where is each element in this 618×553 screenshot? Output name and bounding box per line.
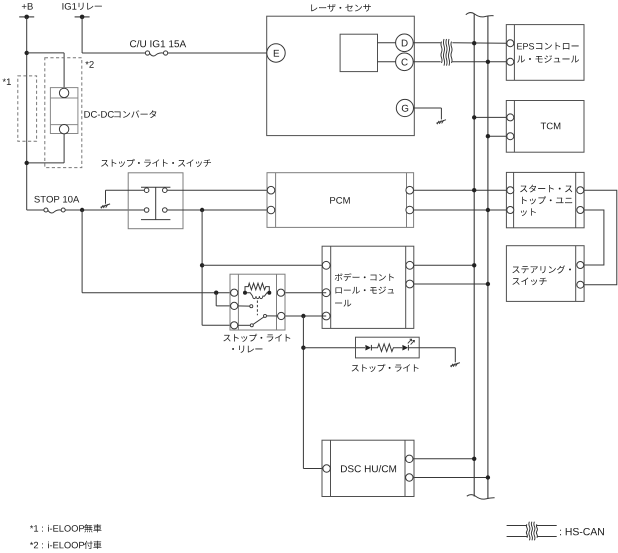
switch contact 3 [144,208,149,213]
junction relay coil branch [214,291,218,295]
HS-CAN bus line 1 [473,14,475,497]
junction stop light feed [301,314,305,318]
relay coil [243,283,271,298]
body control module box [322,246,414,328]
wire to relay contact [202,324,234,326]
junction +B / converter return [25,161,29,165]
wire switch node down [201,210,203,325]
wire SSU to steering outer [584,190,617,285]
wire switch to PCM row1 [167,189,267,191]
note *1 dashed box [3,76,37,141]
terminal BCM-L2 [322,289,330,297]
terminal EPS-2 [507,58,514,65]
terminal BCM-L3 [322,312,330,320]
ground (stop light switch) [101,204,111,209]
junction switch node [200,208,204,212]
wire +B to STOP fuse [27,209,44,211]
bus break top [466,13,494,17]
junction BCM feed [200,263,204,267]
terminal RLY-L2 [231,302,238,309]
wire IG1 to fuse [82,52,145,54]
wire D to bus [413,42,507,44]
terminal BCM-R1 [406,261,414,269]
relay actuator dashed link [256,301,258,316]
terminal SSU-R1 [577,187,584,194]
junction bus C [486,60,490,64]
wire switch to PCM row2 [167,209,267,211]
wire stop light to ground [409,348,456,363]
wire converter feed [27,53,64,89]
wire PCM to start-stop row1 [413,189,506,191]
PCM box [267,173,414,228]
power feed +B [19,3,34,19]
wire to BCM terminal 1 [202,264,326,266]
wire terminal G to ground [414,108,442,119]
wire SSU to steering inner [584,210,604,265]
terminal DSC-R1 [406,455,413,462]
terminal PCM-R1 [406,186,414,194]
wire BCM to bus row2 [410,283,488,285]
relay contact NC [236,305,253,308]
junction bus DSC-2 [486,475,490,479]
junction bus DSC-1 [472,457,476,461]
laser sensor inner module [340,34,377,71]
bus break bottom [467,495,495,500]
switch contact 2 [163,188,168,193]
wire relay to BCM coil row [281,292,326,294]
terminal RLY-R2 [278,312,285,319]
terminal STW-R2 [577,281,584,288]
wire DSC to bus row1 [413,458,474,460]
wire STOP fuse to switch [65,209,144,211]
wire C to bus [413,61,507,63]
stop light diode 1 [365,345,371,351]
terminal BCM-L1 [322,261,330,269]
stop light relay box [223,274,290,353]
start-stop unit box [506,172,584,227]
wire STOP node down to relay [82,210,234,293]
HS-CAN legend twisted pair [507,522,604,541]
terminal PCM-L2 [267,206,275,214]
wire IG1 down [81,17,83,53]
terminal RLY-R1 [277,289,284,296]
HS-CAN bus line 2 [487,16,489,500]
note *2 dashed box [45,58,94,168]
junction bus BCM-2 [486,282,490,286]
stop light LED [402,339,414,350]
terminal TCM-2 [507,133,514,140]
wire feed down to DSC [303,316,323,469]
power feed IG1 relay [62,3,101,19]
wire switch to ground [106,190,145,204]
ground (stop light) [450,363,460,368]
wire BCM to bus row1 [410,264,474,266]
terminal PCM-L1 [267,186,275,194]
relay contact common [236,324,253,327]
relay contact NO [264,314,281,317]
EPS control module box [506,25,584,81]
laser sensor box [267,4,415,136]
junction stop light branch [301,346,305,350]
terminal E [267,44,285,62]
terminal DSC-L1 [323,465,330,472]
junction bus TCM-2 [486,134,490,138]
stop light switch box [101,159,211,229]
ground (laser sensor G) [436,120,446,125]
terminal G [396,99,413,116]
switch contact 1 [144,188,149,193]
wire relay coil branch [216,293,234,306]
fuse STOP 10A [34,196,79,213]
steering switch box [506,246,584,302]
TCM box [506,101,584,153]
DC-DC converter [50,88,156,134]
wire DC-DC converter return [27,134,64,163]
terminal BCM-R2 [406,280,414,288]
wire bus to TCM-1 [474,116,507,118]
DSC HU/CM box [322,440,414,496]
fuse C/U IG1 15A [130,40,186,56]
wire fuse to laser sensor terminal E [168,52,276,54]
wire module to terminal C [378,61,399,63]
junction bus PCM-2 [486,208,490,212]
twisted pair (laser sensor CAN) [441,39,452,66]
junction STOP fuse node [80,208,84,212]
terminal RLY-L3 [231,322,238,329]
terminal TCM-1 [507,114,514,121]
note *2 i-ELOOP [30,541,102,549]
wire module to terminal D [378,42,399,44]
terminal D [396,34,414,52]
junction bus TCM-1 [472,115,476,119]
wire PCM to start-stop row2 [413,209,506,211]
stop light box [352,337,420,372]
note *1 i-ELOOP [30,524,102,532]
terminal STW-R1 [577,262,584,269]
relay blade [253,317,264,325]
junction bus D [472,41,476,45]
terminal PCM-R2 [406,206,414,214]
terminal SSU-R2 [577,207,584,214]
junction bus BCM-1 [472,263,476,267]
wire DSC to bus row2 [413,477,488,479]
wire bus to TCM-2 [488,135,507,137]
junction bus PCM-1 [472,188,476,192]
terminal C [396,53,414,71]
switch contact 4 [163,208,168,213]
wire relay to BCM contact row [281,315,326,317]
junction +B / converter feed [25,51,29,55]
terminal DSC-R2 [406,474,413,481]
switch contact bars [141,187,170,219]
terminal RLY-L1 [231,289,238,296]
stop light resistor [371,344,402,352]
terminal SSU-L1 [507,187,514,194]
terminal SSU-L2 [507,207,514,214]
wire to stop light [303,347,365,349]
wire +B main vertical [26,17,28,210]
terminal EPS-1 [507,40,514,47]
